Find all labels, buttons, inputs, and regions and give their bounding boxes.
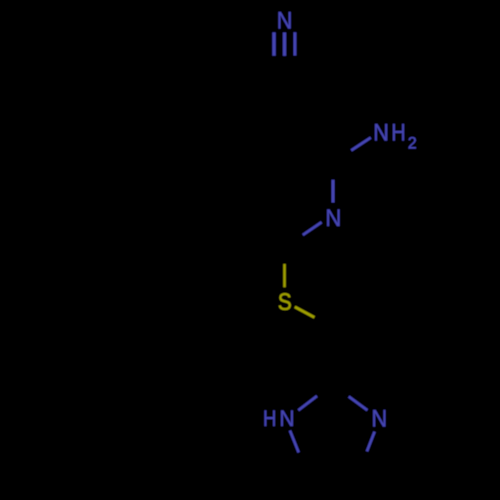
nitrile triple bond line 2 (middle) [283,32,286,56]
bond S to CH2 (yellow half, diagonal) [295,307,315,318]
bond C3 to NH2 (blue half, diagonal) [351,138,371,151]
svg-text:H: H [391,118,405,145]
bond C3 to ring N (blue half, vertical) [332,180,335,203]
nitrile triple bond line 1 (left) [272,32,276,56]
svg-text:N: N [371,404,387,431]
svg-text:2: 2 [408,133,417,152]
bond ring N to C1 (blue half, diagonal) [303,222,322,235]
svg-text:N: N [325,204,341,231]
bond right N to C2 imidazoline (blue half, up-left) [349,397,368,411]
svg-text:N: N [279,405,294,431]
bond HN to C5 imidazoline (blue half, down) [290,431,299,453]
svg-text:N: N [277,6,293,33]
bond C1 to S (yellow half, vertical) [283,264,286,287]
svg-text:H: H [263,406,276,431]
svg-text:S: S [278,289,292,316]
bond HN to C2 imidazoline (blue half, up-right) [298,396,317,410]
nitrile triple bond line 3 (right) [293,32,296,55]
svg-text:N: N [373,118,389,145]
bond right N to C4 imidazoline (blue half, down) [367,432,375,452]
